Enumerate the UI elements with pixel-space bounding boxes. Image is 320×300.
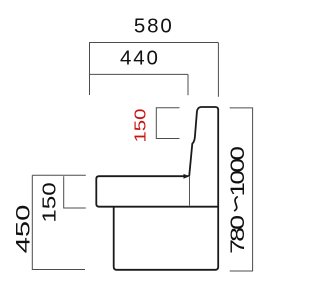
dim line 440 <box>90 73 189 75</box>
dim extension line left (580/440) <box>89 42 91 95</box>
dim bracket 150 backrest (red label) <box>156 108 179 139</box>
dim bracket 450 seat height <box>32 175 85 269</box>
dim extension line right 580 <box>217 43 219 97</box>
dim label tilde <box>235 197 238 211</box>
seat surface arrowhead <box>184 174 190 179</box>
svg-text:1000: 1000 <box>226 147 248 196</box>
backrest front hidden line <box>189 176 191 205</box>
dim witness line seat top <box>32 174 86 176</box>
svg-text:780: 780 <box>226 215 248 254</box>
dim bracket 780-1000 total height <box>230 108 253 271</box>
svg-text:440: 440 <box>120 47 160 70</box>
svg-text:150: 150 <box>38 182 59 222</box>
seat slab outline <box>96 176 218 207</box>
body outline (backrest, right column, base) <box>114 107 219 270</box>
svg-text:150: 150 <box>131 109 149 143</box>
svg-text:450: 450 <box>12 205 34 254</box>
svg-text:580: 580 <box>134 14 174 37</box>
dim line 580 <box>90 42 219 44</box>
dim extension line right 440 <box>187 74 189 95</box>
dim bracket 150 seat thickness <box>64 176 86 208</box>
